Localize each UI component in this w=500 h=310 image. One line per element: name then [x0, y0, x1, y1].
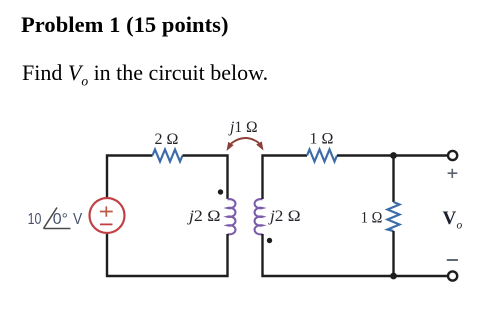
label Vo output voltage — [443, 208, 463, 232]
title: Problem 1 (15 points) — [21, 14, 229, 37]
label 2 ohm — [155, 131, 179, 148]
label 1 ohm (vertical resistor) — [361, 209, 383, 226]
svg-text:0°: 0° — [53, 211, 68, 228]
svg-text:2 Ω: 2 Ω — [155, 131, 179, 148]
svg-text:j1 Ω: j1 Ω — [228, 119, 258, 136]
resistor R2 1ohm (horizontal zigzag, top right) — [307, 150, 337, 162]
output minus sign — [447, 259, 458, 261]
label j1 ohm — [228, 119, 258, 136]
svg-text:V: V — [443, 208, 457, 229]
angle symbol of source label — [44, 208, 71, 229]
coupling dot (secondary, lower right of coil) — [267, 238, 272, 243]
terminal (top right, open circle) — [448, 151, 457, 160]
svg-text:1 Ω: 1 Ω — [310, 131, 334, 148]
label j2 ohm (left) — [187, 208, 221, 225]
svg-text:10: 10 — [28, 211, 42, 228]
output plus sign — [448, 169, 458, 178]
svg-text:o: o — [457, 220, 463, 232]
svg-text:1 Ω: 1 Ω — [361, 209, 383, 226]
wire: top-left branch from source top up and right to 2ohm resistor — [107, 156, 153, 199]
wire: secondary coil bottom down and right to bottom-right terminal — [263, 234, 449, 276]
voltage source V1 circle — [90, 198, 125, 233]
svg-text:V: V — [73, 211, 83, 228]
resistor R1 2ohm (horizontal zigzag, top left) — [153, 150, 183, 162]
label 1 ohm (top) — [310, 131, 334, 148]
resistor R3 1ohm (vertical zigzag) — [388, 202, 400, 231]
mutual coupling arrow j1 ohm (curved double-headed, dark red) — [227, 138, 264, 151]
coupling dot (primary, upper left of coil) — [218, 189, 223, 194]
svg-text:j2 Ω: j2 Ω — [187, 208, 221, 225]
label 10 angle 0 deg V source value — [28, 211, 83, 228]
wire: top lead of vertical 1ohm resistor — [392, 156, 394, 203]
junction node (top) — [390, 152, 397, 159]
wire: from 1ohm resistor to top-right terminal — [337, 154, 448, 156]
junction node (bottom) — [390, 273, 397, 280]
prompt text: Find Vo in the circuit below. — [22, 62, 268, 92]
terminal (bottom right, open circle) — [448, 271, 457, 280]
label j2 ohm (right) — [268, 208, 301, 225]
wire: bottom lead of vertical 1ohm resistor — [392, 231, 394, 276]
wire: primary coil bottom down, bottom-left wire, up to source bottom — [107, 233, 228, 276]
voltage source minus sign — [100, 223, 113, 225]
wire: secondary coil top up and right to 1ohm resistor — [263, 156, 308, 200]
svg-text:j2 Ω: j2 Ω — [268, 208, 301, 225]
wire: from 2ohm resistor right then down to primary coil top — [183, 156, 228, 200]
inductor L1 j2ohm primary coil (bumps to right) — [228, 199, 236, 234]
inductor L2 j2ohm secondary coil (bumps to left) — [255, 199, 263, 234]
voltage source plus sign — [100, 206, 113, 216]
